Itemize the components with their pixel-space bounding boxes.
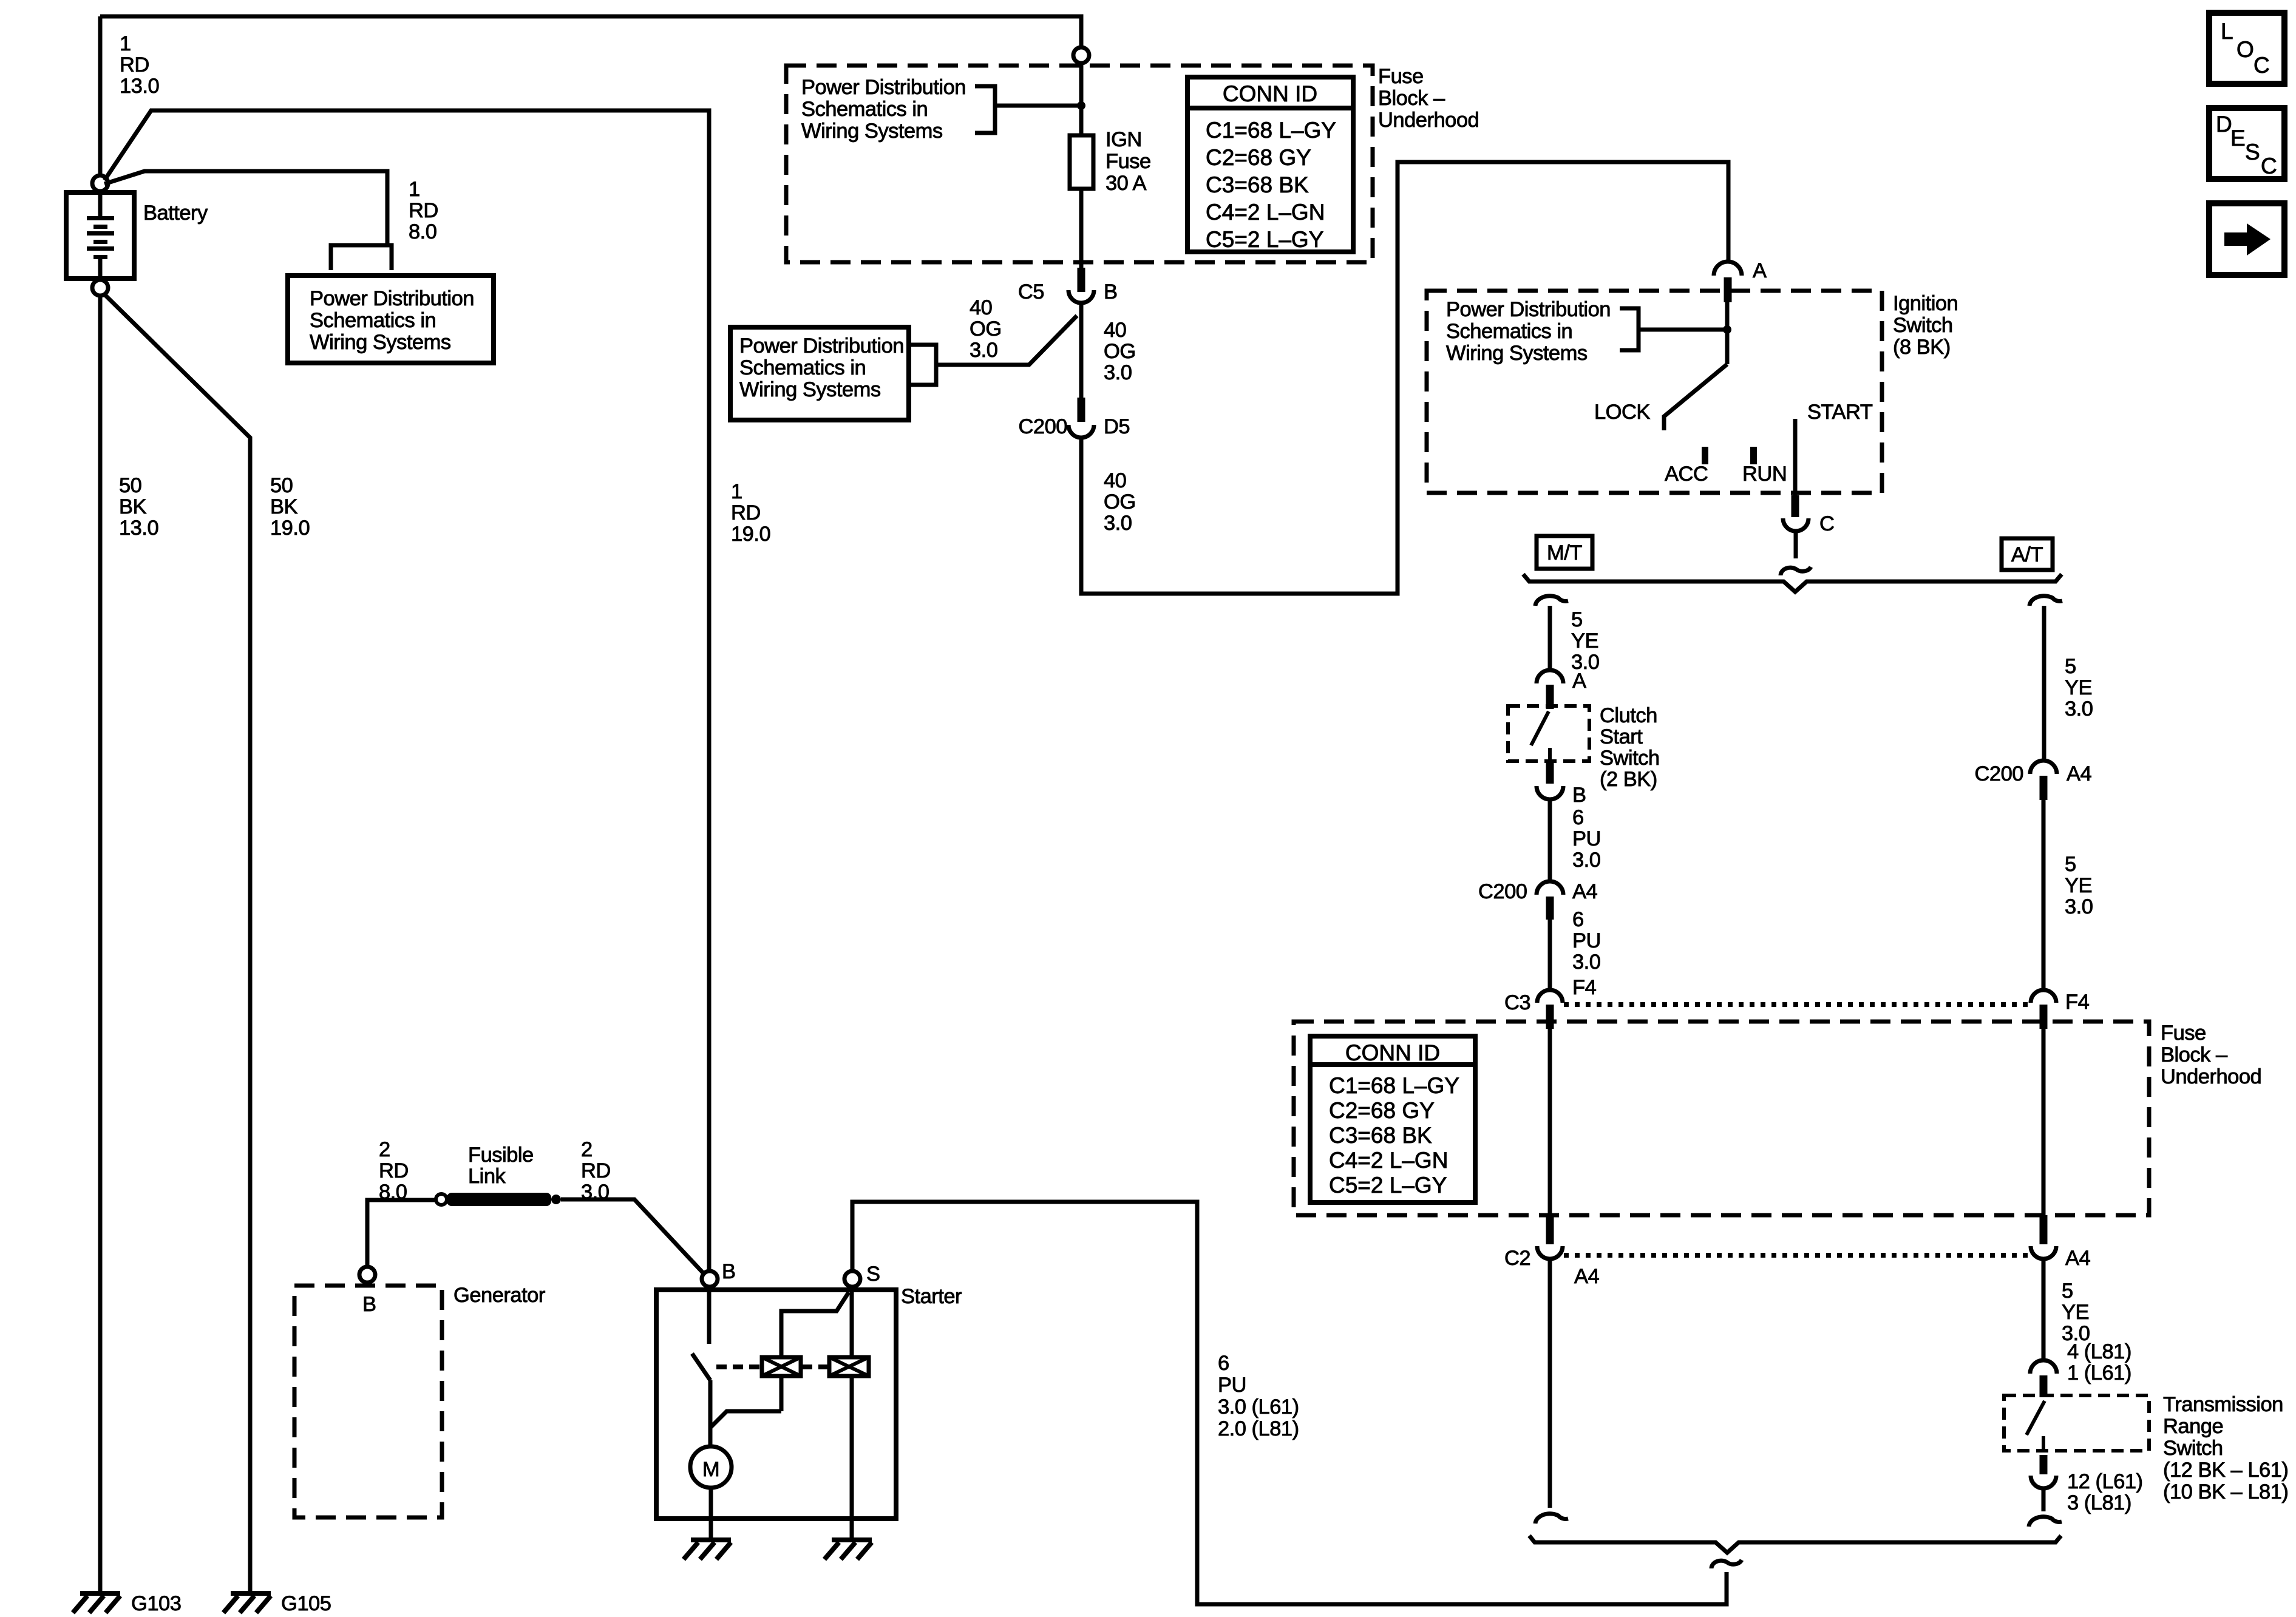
svg-text:Schematics in: Schematics in	[801, 98, 928, 121]
starter coil feed jog	[710, 1411, 781, 1428]
starter B contact wire	[707, 1290, 712, 1344]
starter blade to motor wire	[708, 1380, 713, 1447]
svg-text:1 (L61): 1 (L61)	[2067, 1361, 2131, 1385]
svg-text:Range: Range	[2163, 1415, 2223, 1438]
svg-text:13.0: 13.0	[120, 75, 159, 98]
svg-text:Underhood: Underhood	[1378, 109, 1479, 132]
svg-text:G105: G105	[281, 1592, 331, 1615]
wire F4 down through fuse block (A/T)	[2042, 1029, 2046, 1215]
svg-text:B: B	[1104, 280, 1118, 303]
svg-text:D: D	[2216, 112, 2232, 137]
svg-text:1: 1	[731, 480, 742, 503]
svg-text:A4: A4	[1572, 880, 1598, 903]
svg-text:6: 6	[1572, 806, 1584, 829]
ignition switch dashed box	[1427, 291, 1882, 493]
svg-text:40: 40	[1104, 469, 1126, 492]
break curl A/T bottom	[2029, 1517, 2062, 1527]
svg-text:3.0 (L61): 3.0 (L61)	[1218, 1395, 1299, 1419]
svg-text:PU: PU	[1572, 929, 1601, 952]
svg-text:Schematics in: Schematics in	[310, 309, 436, 332]
svg-text:C5=2 L–GY: C5=2 L–GY	[1329, 1173, 1447, 1198]
connector A clutch start switch	[1537, 670, 1563, 683]
transmission range switch blade	[2026, 1401, 2045, 1435]
generator terminal B	[359, 1267, 375, 1283]
svg-text:OG: OG	[1104, 340, 1136, 363]
bottom brace merge	[1529, 1536, 2061, 1553]
svg-text:Wiring Systems: Wiring Systems	[1446, 342, 1588, 365]
wire C5 to C200	[1079, 303, 1084, 398]
svg-text:50: 50	[270, 474, 293, 497]
CONN ID table (bottom)	[1310, 1036, 1475, 1202]
wire bracket to switch common	[1639, 328, 1727, 332]
wire fusible link to starter B	[561, 1199, 704, 1273]
svg-text:Clutch: Clutch	[1600, 704, 1657, 727]
wire to bottom brace	[2042, 1488, 2046, 1511]
connector C200 A4 (A/T)	[2030, 761, 2057, 774]
connector C2 A4	[1546, 1215, 1554, 1244]
connector C pin	[1792, 495, 1799, 517]
svg-text:LOCK: LOCK	[1594, 401, 1650, 424]
icon DESC	[2209, 108, 2284, 179]
svg-text:2: 2	[581, 1138, 593, 1161]
wire 1 RD 19.0 battery to starter B	[104, 110, 709, 1272]
svg-text:S: S	[866, 1263, 880, 1286]
svg-text:YE: YE	[1571, 629, 1598, 653]
svg-text:C200: C200	[1019, 415, 1067, 438]
svg-text:C: C	[2254, 53, 2270, 78]
connector C3 F4	[1537, 990, 1563, 1003]
icon arrow	[2209, 203, 2284, 275]
svg-text:(8 BK): (8 BK)	[1893, 336, 1951, 359]
wire B to C200 A4	[1548, 799, 1552, 881]
starter pull-in coil	[762, 1357, 801, 1376]
svg-text:RD: RD	[379, 1159, 409, 1182]
svg-text:3.0: 3.0	[2065, 895, 2093, 918]
svg-text:A4: A4	[2065, 1247, 2091, 1270]
svg-text:A/T: A/T	[2011, 543, 2043, 566]
wire 50 BK 13.0 to G103	[98, 296, 103, 1591]
svg-text:(2 BK): (2 BK)	[1600, 768, 1657, 791]
starter box	[656, 1290, 896, 1519]
svg-text:M/T: M/T	[1547, 541, 1582, 564]
terminal circle on feed wire	[1073, 47, 1089, 63]
wire 50 BK 19.0 to G105	[103, 293, 250, 1591]
svg-text:3.0: 3.0	[1104, 361, 1132, 384]
ground G103	[80, 1591, 120, 1596]
svg-text:A: A	[1753, 259, 1767, 282]
wire 1 RD 8.0 battery to power distribution	[104, 171, 387, 245]
svg-text:40: 40	[1104, 319, 1126, 342]
wire to F4 (A/T)	[2042, 800, 2046, 990]
svg-text:13.0: 13.0	[119, 517, 158, 540]
connector A4 (A/T bottom)	[2040, 1215, 2048, 1244]
svg-text:3.0: 3.0	[1572, 951, 1600, 974]
svg-text:YE: YE	[2065, 874, 2092, 897]
svg-text:6: 6	[1218, 1352, 1229, 1375]
CONN ID table (fuse block)	[1187, 77, 1353, 252]
svg-text:M: M	[702, 1458, 719, 1481]
svg-text:C2=68 GY: C2=68 GY	[1206, 145, 1311, 170]
wire fuse to connector C5	[1079, 189, 1084, 268]
svg-text:Fusible: Fusible	[468, 1144, 534, 1167]
starter motor M	[690, 1446, 732, 1488]
junction dot ignition	[1723, 325, 1731, 334]
starter relay blade	[692, 1354, 710, 1380]
svg-text:A4: A4	[2067, 762, 2092, 785]
bracket from power distribution text	[975, 86, 995, 133]
svg-text:Schematics in: Schematics in	[739, 356, 866, 379]
svg-text:3.0: 3.0	[2065, 697, 2093, 720]
svg-text:OG: OG	[1104, 490, 1136, 514]
starter terminal S	[844, 1271, 860, 1287]
starter hold-in coil	[829, 1357, 869, 1376]
svg-text:RD: RD	[731, 501, 761, 524]
svg-text:Power Distribution: Power Distribution	[1446, 298, 1611, 321]
svg-text:F4: F4	[2065, 991, 2090, 1014]
svg-text:Switch: Switch	[1600, 747, 1660, 770]
connector transmission range switch top	[2030, 1360, 2057, 1374]
svg-text:S: S	[2245, 140, 2260, 164]
svg-text:OG: OG	[970, 317, 1002, 341]
svg-text:50: 50	[119, 474, 141, 497]
svg-text:2: 2	[379, 1138, 390, 1161]
fuse block underhood dashed box	[786, 66, 1373, 262]
wire brace to starter S	[852, 1202, 1727, 1604]
svg-text:F4: F4	[1572, 976, 1597, 999]
svg-text:Underhood: Underhood	[2161, 1065, 2261, 1088]
svg-text:A4: A4	[1574, 1265, 1600, 1288]
label M/T	[1537, 536, 1592, 569]
svg-text:Battery: Battery	[143, 202, 208, 225]
svg-text:Fuse: Fuse	[2161, 1022, 2206, 1045]
svg-text:C2: C2	[1504, 1247, 1530, 1270]
break curl M/T branch top	[1535, 596, 1568, 606]
battery negative terminal	[92, 280, 108, 296]
svg-text:Power Distribution: Power Distribution	[801, 76, 966, 99]
svg-text:BK: BK	[119, 495, 147, 518]
svg-text:Schematics in: Schematics in	[1446, 320, 1572, 343]
svg-text:Block –: Block –	[1378, 87, 1445, 110]
starter ground right	[832, 1537, 872, 1542]
wire generator B up to fusible link	[367, 1200, 436, 1267]
svg-text:RUN: RUN	[1742, 463, 1787, 486]
wire A/T branch down	[2042, 606, 2046, 761]
clutch start switch dashed box	[1508, 706, 1589, 761]
svg-text:A: A	[1572, 670, 1586, 693]
svg-text:C3=68 BK: C3=68 BK	[1329, 1123, 1432, 1148]
wire S to hold-in coil	[850, 1290, 854, 1357]
connector transmission range switch bottom	[2040, 1455, 2048, 1474]
svg-text:START: START	[1807, 401, 1873, 424]
svg-text:RD: RD	[581, 1159, 611, 1182]
svg-text:(10 BK – L81): (10 BK – L81)	[2163, 1480, 2288, 1503]
wire C2 down to brace	[1548, 1259, 1552, 1508]
svg-text:Wiring Systems: Wiring Systems	[801, 120, 943, 143]
wire C to brace	[1794, 531, 1798, 558]
svg-text:3 (L81): 3 (L81)	[2067, 1491, 2131, 1514]
svg-text:C: C	[2261, 154, 2277, 178]
wire M/T branch to clutch start switch A	[1548, 606, 1552, 670]
svg-text:Block –: Block –	[2161, 1043, 2228, 1066]
break curl A/T branch top	[2029, 596, 2062, 606]
dotted tie line F4 to F4	[1564, 1002, 2030, 1007]
svg-text:D5: D5	[1104, 415, 1130, 438]
svg-text:1: 1	[120, 32, 131, 55]
wire C200 A4 to C3 F4	[1548, 920, 1552, 990]
svg-text:C5=2 L–GY: C5=2 L–GY	[1206, 227, 1323, 252]
svg-text:G103: G103	[131, 1592, 181, 1615]
ground G105	[231, 1591, 271, 1596]
fusible link	[436, 1194, 447, 1205]
svg-text:O: O	[2237, 37, 2254, 62]
svg-text:B: B	[722, 1260, 736, 1283]
svg-text:19.0: 19.0	[731, 523, 770, 546]
wire motor to ground	[709, 1488, 713, 1537]
generator dashed box	[294, 1286, 442, 1517]
svg-text:Power Distribution: Power Distribution	[739, 334, 904, 358]
svg-text:19.0: 19.0	[270, 517, 310, 540]
svg-text:3.0: 3.0	[1104, 512, 1132, 535]
svg-text:4 (L81): 4 (L81)	[2067, 1340, 2131, 1363]
svg-text:1: 1	[409, 178, 420, 201]
svg-text:PU: PU	[1218, 1374, 1246, 1397]
svg-text:Fuse: Fuse	[1106, 150, 1151, 173]
svg-text:RD: RD	[120, 53, 149, 76]
svg-text:C3: C3	[1504, 991, 1530, 1014]
box Power Distribution Schematics in Wiring Systems (battery feed)	[288, 276, 494, 363]
svg-text:CONN ID: CONN ID	[1223, 81, 1317, 106]
top brace M/T A/T split	[1523, 574, 2062, 592]
off-page bracket to power distribution box	[331, 245, 392, 270]
svg-text:5: 5	[2065, 655, 2076, 678]
bracket to power distribution box (left)	[911, 345, 936, 385]
battery positive terminal	[92, 175, 108, 191]
svg-text:C3=68 BK: C3=68 BK	[1206, 172, 1309, 197]
wire C3 down through fuse block	[1548, 1029, 1552, 1215]
svg-text:C200: C200	[1478, 880, 1527, 903]
svg-text:3.0: 3.0	[970, 339, 997, 362]
wire C200 D5 to ignition switch A	[1081, 162, 1728, 594]
clutch switch blade	[1531, 711, 1549, 745]
svg-text:12 (L61): 12 (L61)	[2067, 1470, 2143, 1493]
svg-text:C200: C200	[1975, 762, 2023, 785]
box Power Distribution Schematics in Wiring Systems (40 OG feed)	[730, 327, 909, 420]
svg-text:C1=68 L–GY: C1=68 L–GY	[1206, 118, 1336, 143]
svg-text:40: 40	[970, 296, 992, 319]
wire A to wiper pivot	[1725, 302, 1730, 364]
switch wiper to LOCK	[1664, 364, 1727, 430]
svg-text:E: E	[2230, 126, 2246, 151]
contact RUN	[1750, 447, 1757, 464]
svg-text:BK: BK	[270, 495, 298, 518]
junction dot	[1077, 101, 1085, 110]
svg-text:C4=2 L–GN: C4=2 L–GN	[1329, 1148, 1448, 1173]
connector A ignition switch	[1714, 262, 1742, 276]
fuse block underhood dashed box (bottom)	[1294, 1022, 2149, 1215]
wire bracket to junction	[995, 104, 1081, 108]
wire battery positive to fuse block (top run)	[100, 16, 1081, 47]
svg-text:C2=68 GY: C2=68 GY	[1329, 1098, 1435, 1123]
svg-text:ACC: ACC	[1665, 463, 1708, 486]
svg-text:Ignition: Ignition	[1893, 292, 1958, 315]
svg-text:C: C	[1819, 512, 1834, 535]
svg-text:L: L	[2221, 19, 2233, 44]
wire left coil bottom	[779, 1376, 784, 1411]
starter terminal B	[702, 1271, 718, 1287]
svg-text:B: B	[362, 1293, 376, 1316]
connector F4 (A/T)	[2031, 990, 2056, 1003]
battery B+	[66, 192, 134, 279]
svg-text:3.0: 3.0	[1572, 849, 1600, 872]
svg-text:YE: YE	[2065, 676, 2092, 699]
starter ground left	[691, 1537, 731, 1542]
svg-text:Link: Link	[468, 1165, 506, 1188]
wire hold-in coil to ground	[850, 1376, 854, 1537]
svg-text:YE: YE	[2062, 1301, 2089, 1324]
svg-text:5: 5	[1571, 608, 1583, 631]
svg-text:Starter: Starter	[901, 1285, 962, 1308]
svg-text:8.0: 8.0	[409, 220, 436, 243]
fuse IGN 30A	[1070, 135, 1093, 189]
dotted tie line A4 to A4	[1564, 1253, 2030, 1258]
svg-text:Switch: Switch	[2163, 1437, 2223, 1460]
svg-text:5: 5	[2065, 853, 2076, 876]
svg-text:PU: PU	[1572, 827, 1601, 850]
connector C5 pin B	[1078, 268, 1085, 292]
svg-text:RD: RD	[409, 199, 438, 222]
svg-text:6: 6	[1572, 908, 1584, 931]
break curl M/T bottom	[1535, 1514, 1568, 1524]
wire battery positive stub up	[98, 16, 103, 175]
contact ACC	[1702, 447, 1708, 464]
svg-text:Fuse: Fuse	[1378, 65, 1424, 88]
starter mechanical dashes	[716, 1364, 761, 1369]
svg-text:Power Distribution: Power Distribution	[310, 287, 474, 310]
transmission range switch dashed box	[2004, 1395, 2149, 1451]
connector B clutch start switch	[1546, 763, 1554, 784]
svg-text:IGN: IGN	[1106, 128, 1142, 151]
svg-text:C1=68 L–GY: C1=68 L–GY	[1329, 1073, 1459, 1098]
svg-text:C4=2 L–GN: C4=2 L–GN	[1206, 200, 1325, 225]
svg-text:2.0 (L81): 2.0 (L81)	[1218, 1417, 1299, 1440]
svg-text:Switch: Switch	[1893, 314, 1953, 337]
wire A4 to transmission range switch	[2042, 1259, 2046, 1361]
svg-text:C5: C5	[1018, 280, 1044, 303]
svg-text:B: B	[1572, 784, 1586, 807]
svg-text:5: 5	[2062, 1280, 2073, 1303]
battery plates	[98, 192, 103, 216]
svg-text:CONN ID: CONN ID	[1345, 1040, 1440, 1065]
svg-text:(12 BK – L61): (12 BK – L61)	[2163, 1459, 2288, 1482]
bracket inside ignition switch	[1620, 308, 1639, 350]
break symbol below bottom brace	[1711, 1560, 1742, 1568]
connector C200 A4 (M/T)	[1537, 881, 1563, 895]
svg-text:30 A: 30 A	[1106, 172, 1147, 195]
svg-text:Transmission: Transmission	[2163, 1393, 2283, 1416]
svg-text:Start: Start	[1600, 725, 1643, 748]
label A/T	[2002, 538, 2053, 570]
connector C200 pin D5	[1078, 398, 1085, 422]
icon LOC	[2209, 13, 2284, 84]
svg-text:Generator: Generator	[453, 1284, 545, 1307]
wire 40 OG 3.0 to power distribution (diagonal)	[936, 316, 1077, 365]
break symbol below C	[1781, 567, 1811, 575]
svg-text:Wiring Systems: Wiring Systems	[310, 331, 451, 354]
contact START and wire to C	[1793, 419, 1798, 495]
wire into IGN fuse	[1079, 63, 1084, 135]
svg-text:8.0: 8.0	[379, 1181, 407, 1204]
svg-text:Wiring Systems: Wiring Systems	[739, 378, 881, 401]
starter coil top wire	[781, 1292, 849, 1357]
